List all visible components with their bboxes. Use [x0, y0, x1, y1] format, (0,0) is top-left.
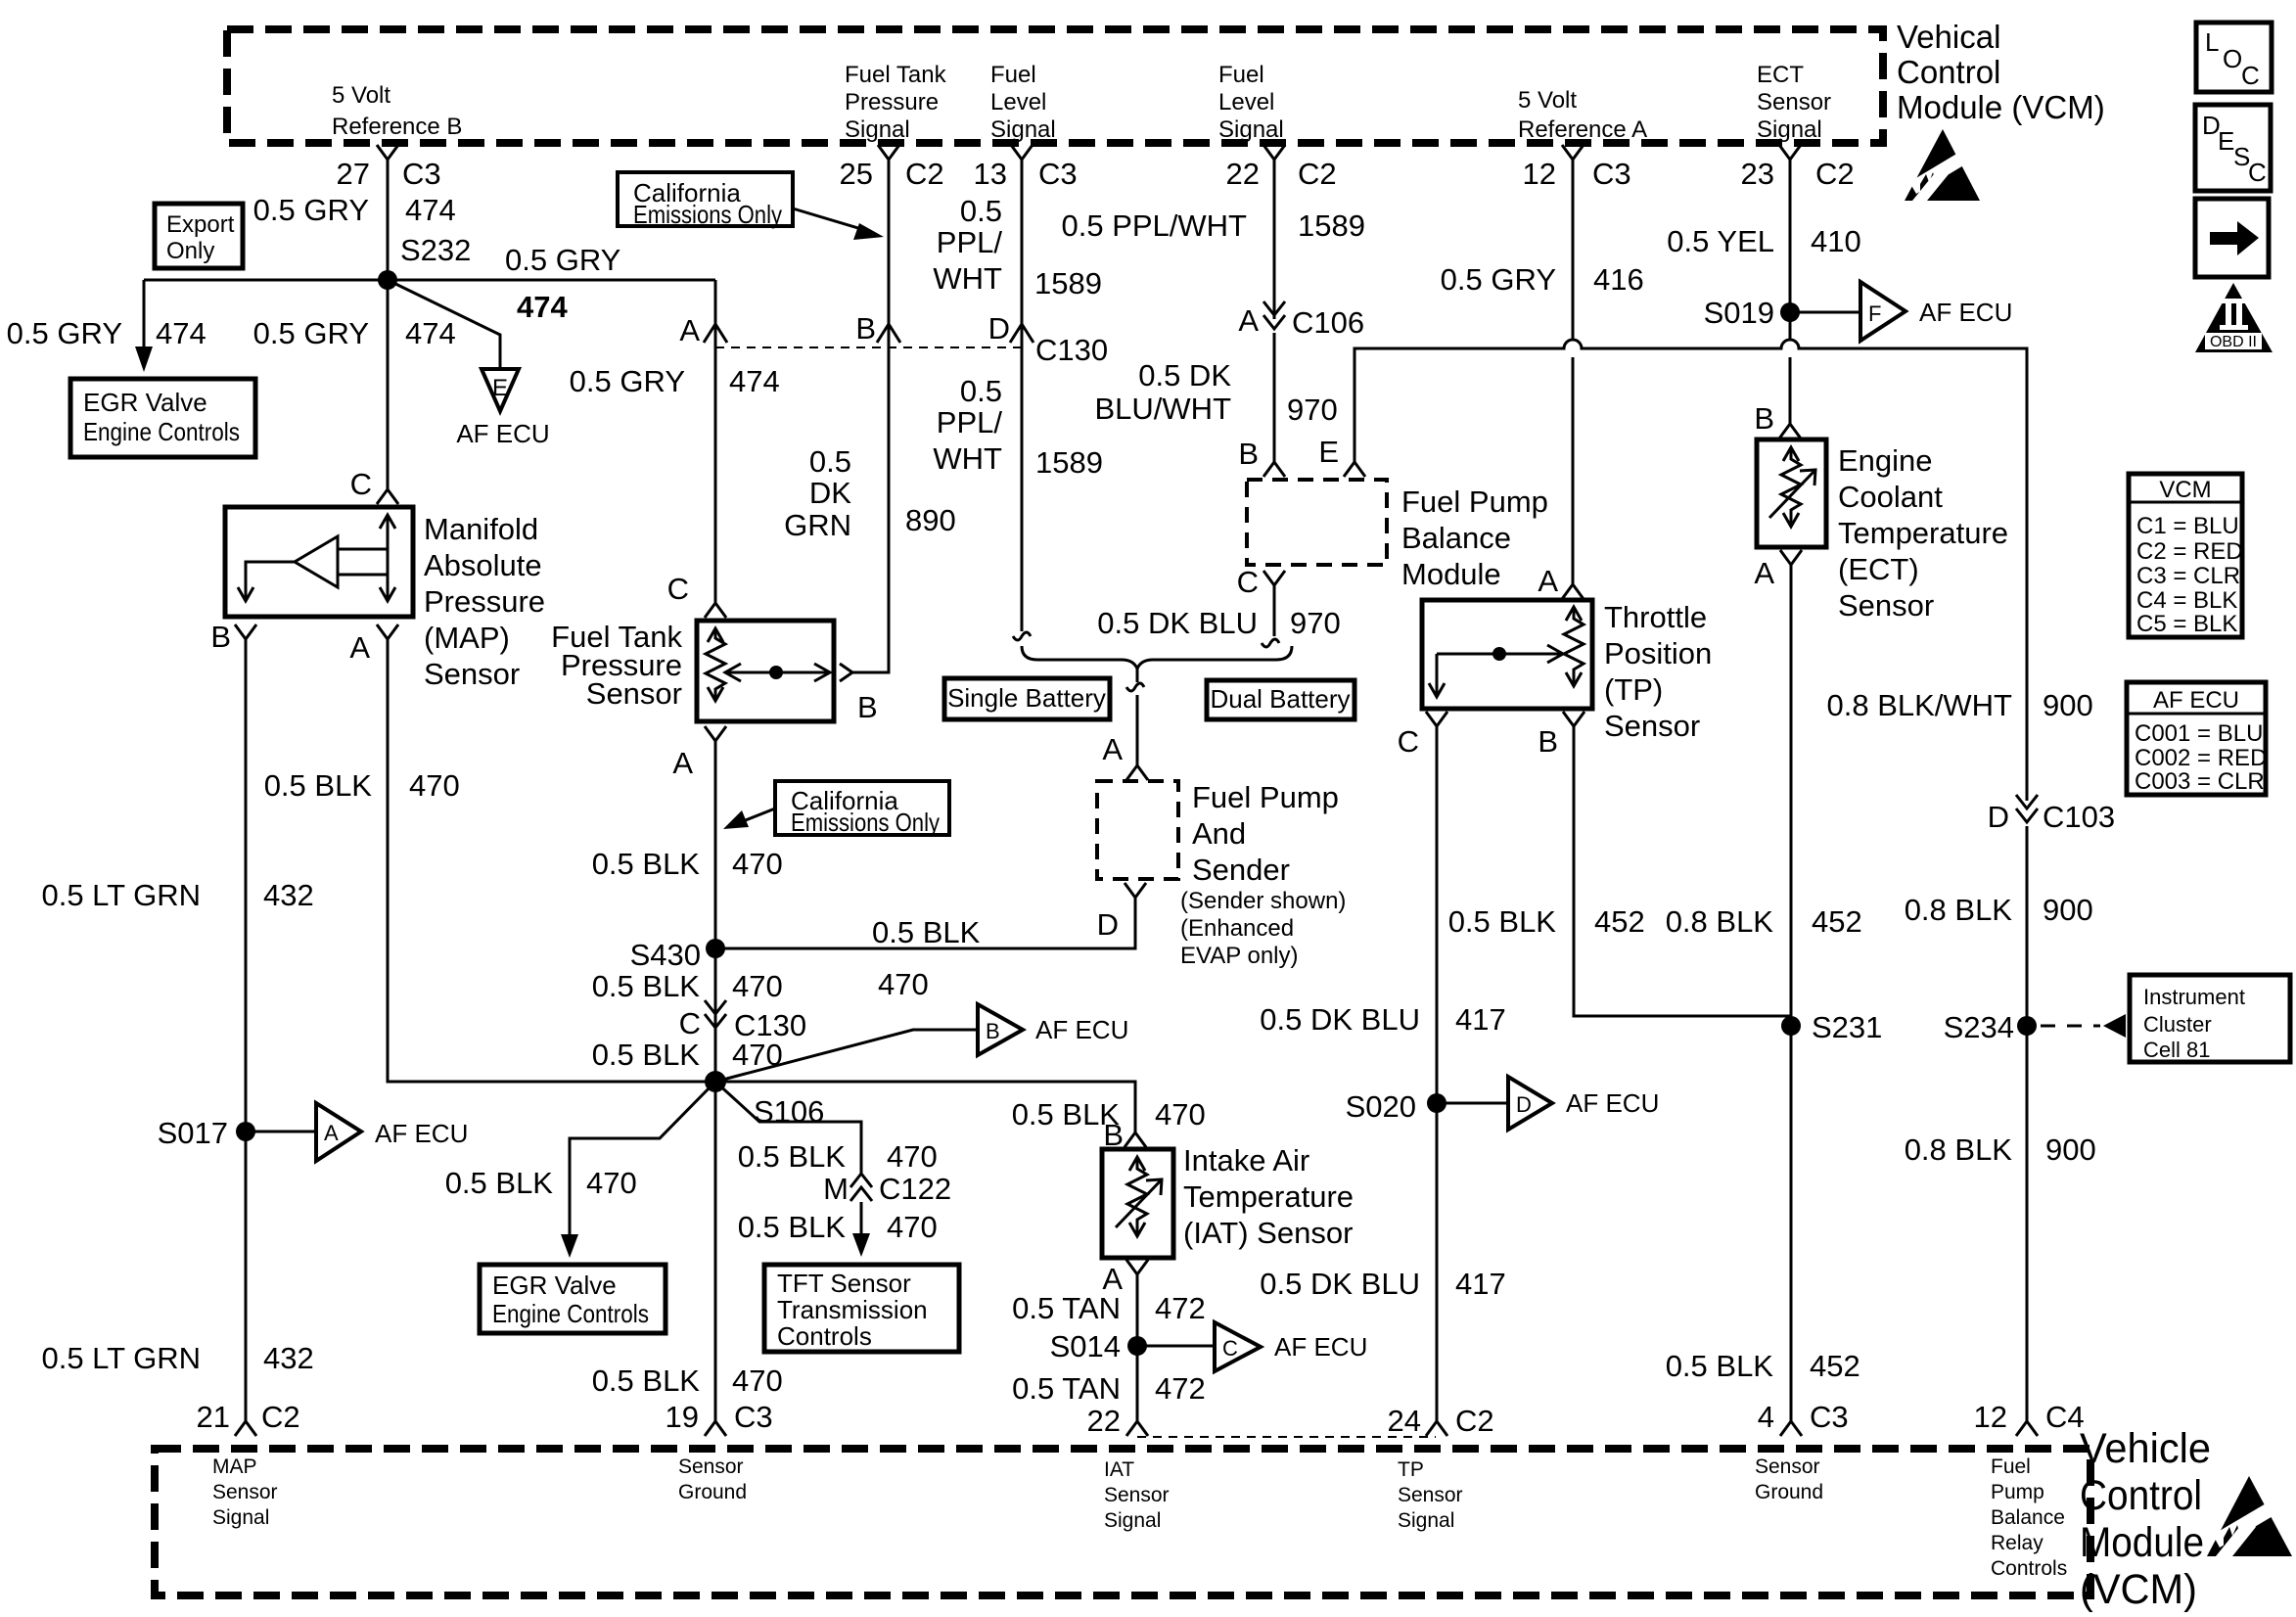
svg-text:452: 452	[1594, 904, 1645, 939]
svg-text:890: 890	[905, 503, 956, 537]
wire S014 to AF ECU C	[1137, 1345, 1214, 1348]
svg-text:0.5: 0.5	[960, 194, 1002, 228]
svg-text:0.5 BLK: 0.5 BLK	[738, 1210, 847, 1244]
Fuel Pump And Sender dashed box	[1097, 781, 1178, 879]
svg-text:0.5 GRY: 0.5 GRY	[505, 243, 620, 277]
label Fuel Pump Balance Module	[1401, 485, 1548, 591]
label 0.5 BLK 470 (below S430)	[592, 969, 783, 1003]
wire S106 to EGR Valve (lower)	[561, 1082, 715, 1258]
svg-text:0.8 BLK/WHT: 0.8 BLK/WHT	[1827, 688, 2013, 722]
svg-text:TFT Sensor: TFT Sensor	[777, 1269, 911, 1298]
svg-text:Absolute: Absolute	[424, 548, 542, 582]
svg-text:1589: 1589	[1034, 266, 1102, 300]
svg-text:VCM: VCM	[2159, 477, 2211, 503]
pin B FTP	[840, 664, 878, 724]
svg-text:A: A	[679, 313, 700, 347]
svg-text:F: F	[1868, 301, 1881, 326]
wire 452 TP B to S231	[1574, 726, 1791, 1016]
California Emissions Only box (lower)	[723, 781, 949, 837]
svg-text:Sensor: Sensor	[1838, 588, 1934, 623]
svg-text:Pump: Pump	[1991, 1481, 2044, 1503]
pin A ECT	[1754, 550, 1802, 590]
wire 474 down from S232 corner to FTP C	[714, 280, 717, 603]
svg-text:470: 470	[878, 967, 929, 1001]
label 0.5 DK BLU 417 (lower)	[1260, 1267, 1505, 1301]
AF ECU connector legend box	[2127, 682, 2267, 795]
svg-text:13: 13	[974, 157, 1007, 191]
svg-text:23: 23	[1741, 157, 1774, 191]
svg-text:0.5 DK BLU: 0.5 DK BLU	[1260, 1002, 1420, 1037]
label 0.5 GRY 416	[1441, 262, 1644, 297]
net label IAT Sensor Signal	[1104, 1458, 1170, 1532]
svg-text:Control: Control	[1897, 54, 2000, 90]
node S014	[1050, 1329, 1147, 1363]
svg-text:Cluster: Cluster	[2143, 1012, 2212, 1037]
pin 24 C2	[1388, 1404, 1494, 1438]
svg-text:Sensor: Sensor	[1757, 89, 1831, 115]
svg-text:C3 = CLR: C3 = CLR	[2136, 563, 2240, 589]
svg-text:5 Volt: 5 Volt	[1518, 87, 1577, 114]
svg-text:Reference B: Reference B	[332, 114, 462, 140]
svg-text:Manifold: Manifold	[424, 512, 538, 546]
label 0.5 DK BLU 970	[1097, 606, 1340, 640]
svg-text:0.5: 0.5	[960, 374, 1002, 408]
wire 474 pin 27 to S232	[387, 160, 390, 280]
svg-text:0.5 GRY: 0.5 GRY	[253, 316, 369, 350]
connector C130 pin D	[988, 311, 1109, 367]
pin A IAT	[1102, 1260, 1148, 1296]
svg-text:C3: C3	[1592, 157, 1631, 191]
svg-text:Only: Only	[166, 238, 214, 264]
svg-text:Emissions Only: Emissions Only	[633, 200, 782, 229]
svg-text:0.5 DK BLU: 0.5 DK BLU	[1097, 606, 1258, 640]
svg-text:PPL/: PPL/	[937, 405, 1003, 439]
VCM header text bottom right	[2080, 1425, 2211, 1613]
pin B IAT	[1103, 1118, 1146, 1152]
VCM top dashed box	[227, 29, 1883, 143]
pin A TP sensor	[1538, 564, 1584, 599]
wire 472 IAT A to pin 22	[1136, 1274, 1139, 1421]
svg-text:12: 12	[1523, 157, 1556, 191]
label 0.5 GRY (S232 to California wire)	[505, 243, 620, 324]
connector C106 pin A	[1238, 301, 1364, 340]
wire 470 FTP A to S430	[714, 741, 717, 1421]
svg-text:C: C	[350, 467, 372, 501]
pin 25 C2	[840, 145, 944, 191]
svg-text:417: 417	[1455, 1002, 1506, 1037]
wire 470 to IAT B	[715, 1082, 1135, 1132]
AF ECU grid D (triangle)	[1508, 1077, 1659, 1130]
svg-text:0.5 BLK: 0.5 BLK	[872, 915, 981, 949]
svg-text:(Sender shown): (Sender shown)	[1180, 888, 1346, 914]
svg-text:416: 416	[1593, 262, 1644, 297]
svg-text:0.5 LT GRN: 0.5 LT GRN	[41, 878, 201, 912]
svg-text:Pressure: Pressure	[845, 89, 939, 115]
label 0.5 DK BLU 417 (upper)	[1260, 1002, 1505, 1037]
LOC legend box	[2196, 23, 2272, 92]
svg-text:A: A	[1102, 732, 1123, 766]
svg-text:(VCM): (VCM)	[2080, 1566, 2197, 1613]
svg-text:OBD II: OBD II	[2210, 334, 2257, 350]
connector C130 pin A	[679, 313, 727, 347]
svg-text:Level: Level	[990, 89, 1046, 115]
svg-text:0.5 BLK: 0.5 BLK	[1448, 904, 1557, 939]
svg-text:DK: DK	[809, 476, 851, 510]
wire S020 to AF ECU D	[1437, 1102, 1507, 1105]
svg-text:C: C	[667, 572, 689, 606]
svg-text:S430: S430	[630, 938, 701, 972]
AF ECU grid A (triangle)	[316, 1103, 468, 1161]
svg-text:D: D	[988, 311, 1010, 346]
svg-text:C: C	[1398, 724, 1419, 759]
svg-text:A: A	[324, 1121, 339, 1145]
svg-text:474: 474	[405, 193, 456, 227]
wire 474 to EGR Valve (export only)	[135, 280, 153, 372]
net label MAP Sensor Signal	[212, 1455, 278, 1529]
wire 452 ECT A to pin 4	[1790, 565, 1793, 1421]
svg-text:Sensor: Sensor	[1104, 1484, 1170, 1506]
svg-text:Pressure: Pressure	[424, 584, 545, 619]
svg-text:470: 470	[409, 768, 460, 803]
op-amp U1 MAP sensor box	[225, 507, 413, 617]
svg-text:Coolant: Coolant	[1838, 480, 1943, 514]
svg-text:0.5 TAN: 0.5 TAN	[1012, 1371, 1121, 1406]
label 0.5 BLK 470 (C122 upper)	[738, 1139, 938, 1174]
svg-text:C2: C2	[905, 157, 944, 191]
svg-text:0.8 BLK: 0.8 BLK	[1905, 1132, 2013, 1167]
svg-text:0.5 BLK: 0.5 BLK	[592, 847, 701, 881]
svg-text:S014: S014	[1050, 1329, 1121, 1363]
svg-text:S017: S017	[158, 1116, 228, 1150]
svg-text:Instrument: Instrument	[2143, 985, 2245, 1009]
Single Battery box	[944, 678, 1110, 719]
Dual Battery box	[1207, 680, 1355, 719]
svg-text:C4 = BLK: C4 = BLK	[2136, 587, 2237, 614]
resistor FTP (Fuel Tank Pressure Sensor)	[697, 621, 834, 721]
svg-text:Engine Controls: Engine Controls	[492, 1299, 649, 1328]
resistor ECT (Engine Coolant Temperature Sensor)	[1757, 439, 1826, 547]
svg-text:S232: S232	[400, 233, 471, 267]
svg-text:A: A	[349, 630, 370, 665]
svg-text:C: C	[1237, 565, 1259, 599]
label 0.5 PPL/WHT 1589 (pin 13 lower)	[933, 374, 1103, 480]
svg-text:22: 22	[1087, 1404, 1121, 1438]
svg-text:C1 = BLU: C1 = BLU	[2136, 513, 2239, 539]
svg-text:(TP): (TP)	[1604, 672, 1663, 707]
svg-text:472: 472	[1155, 1291, 1206, 1325]
svg-text:432: 432	[263, 1341, 314, 1375]
pin A MAP	[349, 624, 398, 665]
wire 470 S430 to Fuel Pump D	[715, 898, 1135, 948]
node S231	[1781, 1010, 1882, 1044]
VCM connector legend box	[2129, 474, 2243, 637]
svg-text:AF ECU: AF ECU	[2153, 687, 2239, 714]
svg-text:C2 = RED: C2 = RED	[2136, 538, 2243, 565]
resistor IAT (Intake Air Temperature Sensor)	[1102, 1149, 1173, 1258]
svg-text:MAP: MAP	[212, 1455, 257, 1478]
svg-text:GRN: GRN	[784, 508, 851, 542]
AF ECU grid B (triangle)	[978, 1004, 1128, 1055]
wire S106 to AF ECU B	[715, 1030, 977, 1082]
net label Fuel Level Signal (pin 22)	[1218, 62, 1284, 143]
label 0.5 BLK 470 (EGR lower branch)	[445, 1166, 637, 1200]
label Throttle Position (TP) Sensor	[1604, 600, 1712, 743]
pin 4 C3	[1758, 1400, 1849, 1436]
svg-text:AF ECU: AF ECU	[1035, 1015, 1128, 1044]
svg-text:Dual Battery: Dual Battery	[1210, 684, 1350, 714]
svg-text:S231: S231	[1812, 1010, 1882, 1044]
svg-text:S106: S106	[754, 1094, 824, 1129]
label 0.8 BLK 452	[1666, 904, 1862, 939]
svg-text:S019: S019	[1704, 296, 1774, 330]
svg-text:C003 = CLR: C003 = CLR	[2135, 768, 2265, 795]
svg-text:C2: C2	[1298, 157, 1337, 191]
svg-text:L: L	[2205, 27, 2219, 57]
label Fuel Tank Pressure Sensor	[551, 620, 682, 711]
svg-text:Fuel: Fuel	[1991, 1455, 2031, 1478]
svg-text:Intake Air: Intake Air	[1183, 1143, 1309, 1178]
svg-text:432: 432	[263, 878, 314, 912]
connector link pins 22-24 dashed	[1137, 1436, 1436, 1438]
svg-text:0.5 DK BLU: 0.5 DK BLU	[1260, 1267, 1420, 1301]
svg-text:Throttle: Throttle	[1604, 600, 1707, 634]
svg-text:22: 22	[1226, 157, 1260, 191]
svg-text:Balance: Balance	[1991, 1506, 2065, 1529]
VCM bottom dashed box	[155, 1449, 2090, 1595]
wire 410 pin 23 to S019 to ECT B	[1789, 160, 1792, 424]
pin C Fuel Pump Balance Module	[1237, 565, 1285, 599]
svg-text:C: C	[2241, 61, 2260, 90]
svg-text:AF ECU: AF ECU	[456, 419, 549, 448]
pin 27 C3	[337, 145, 441, 191]
svg-text:C3: C3	[1038, 157, 1078, 191]
svg-text:WHT: WHT	[933, 261, 1002, 296]
net label ECT Sensor Signal	[1757, 62, 1831, 143]
svg-text:0.5: 0.5	[809, 444, 851, 479]
connector C103 pin D	[1988, 795, 2116, 834]
svg-text:Engine: Engine	[1838, 443, 1933, 478]
svg-text:Fuel Pump: Fuel Pump	[1192, 780, 1339, 814]
net label Fuel Tank Pressure Signal	[845, 62, 947, 143]
svg-text:BLU/WHT: BLU/WHT	[1095, 392, 1232, 426]
label 0.8 BLK 900 (lower)	[1905, 1132, 2096, 1167]
svg-text:21: 21	[197, 1400, 230, 1434]
pin B ECT sensor	[1754, 401, 1801, 439]
connector C130 pin B	[855, 311, 900, 346]
label 0.5 DK BLU/WHT 970	[1095, 358, 1338, 427]
ESD symbol bottom right	[2207, 1476, 2292, 1556]
svg-text:Signal: Signal	[212, 1506, 269, 1529]
ESD symbol top right	[1905, 129, 1980, 201]
label 0.5 YEL 410	[1667, 224, 1860, 258]
svg-text:452: 452	[1810, 1349, 1860, 1383]
pin 22 C2	[1226, 145, 1337, 191]
label Engine Coolant Temperature (ECT) Sensor	[1838, 443, 2008, 623]
wire S106 to TFT / C122	[715, 1082, 861, 1174]
pin 22	[1087, 1404, 1148, 1438]
svg-text:C5 = BLK: C5 = BLK	[2136, 611, 2237, 637]
svg-text:S234: S234	[1944, 1010, 2014, 1044]
svg-text:A: A	[672, 746, 693, 780]
svg-text:25: 25	[840, 157, 873, 191]
svg-text:Export: Export	[166, 211, 235, 238]
pin E Fuel Pump Balance Module	[1318, 435, 1365, 477]
net label Fuel Level Signal (pin 13)	[990, 62, 1056, 143]
svg-text:900: 900	[2043, 893, 2093, 927]
svg-text:Position: Position	[1604, 636, 1712, 670]
svg-text:Module: Module	[2080, 1519, 2204, 1566]
label 0.5 PPL/WHT 1589 (pin 13 upper)	[933, 194, 1102, 300]
pin 23 C2	[1741, 145, 1855, 191]
svg-text:472: 472	[1155, 1371, 1206, 1406]
svg-text:470: 470	[732, 1363, 783, 1398]
label 0.5 LT GRN 432 (upper)	[41, 878, 313, 912]
svg-text:970: 970	[1290, 606, 1341, 640]
wire 890 pin 25 to FTP B	[852, 160, 889, 672]
wire brace (battery option join)	[1022, 646, 1292, 765]
label 0.5 GRY 474 (below C130)	[570, 364, 780, 398]
pin C MAP	[350, 467, 398, 504]
node S430	[630, 938, 725, 972]
svg-text:452: 452	[1812, 904, 1862, 939]
svg-text:970: 970	[1287, 393, 1338, 427]
pin 12 C3	[1523, 145, 1631, 191]
svg-text:0.5 GRY: 0.5 GRY	[1441, 262, 1556, 297]
svg-text:C4: C4	[2045, 1400, 2085, 1434]
svg-text:WHT: WHT	[933, 441, 1002, 476]
svg-text:PPL/: PPL/	[937, 225, 1003, 259]
label 0.8 BLK 900 (middle)	[1905, 893, 2093, 927]
svg-text:Signal: Signal	[1104, 1509, 1161, 1532]
svg-text:C122: C122	[879, 1172, 951, 1206]
label 0.5 TAN 472 (lower)	[1012, 1371, 1206, 1406]
wire 432 MAP B to pin 21	[245, 639, 248, 1421]
svg-text:C: C	[1222, 1336, 1238, 1361]
svg-text:Temperature: Temperature	[1838, 516, 2008, 550]
svg-text:(IAT) Sensor: (IAT) Sensor	[1183, 1216, 1353, 1250]
wire 474 horizontal S232 bus	[144, 279, 715, 282]
svg-text:Signal: Signal	[990, 116, 1056, 143]
svg-text:EGR Valve: EGR Valve	[492, 1270, 617, 1300]
arrow legend box	[2195, 199, 2269, 277]
svg-text:474: 474	[517, 290, 568, 324]
AF ECU grid F (triangle)	[1860, 282, 2012, 341]
svg-text:Fuel Pump: Fuel Pump	[1401, 485, 1548, 519]
svg-text:TP: TP	[1398, 1458, 1424, 1481]
pin 21 C2	[197, 1400, 300, 1436]
svg-text:A: A	[1538, 564, 1558, 598]
svg-text:B: B	[986, 1019, 1000, 1043]
svg-text:470: 470	[887, 1139, 938, 1174]
svg-text:M: M	[823, 1172, 849, 1206]
label 0.5 GRY 474 (S232 down segment)	[253, 316, 456, 350]
svg-text:Balance: Balance	[1401, 521, 1511, 555]
label 0.5 GRY 474 (EGR branch)	[7, 316, 207, 350]
svg-text:Sensor: Sensor	[586, 676, 682, 711]
svg-text:Engine Controls: Engine Controls	[83, 417, 240, 446]
svg-text:Fuel: Fuel	[1218, 62, 1264, 88]
svg-text:0.5 BLK: 0.5 BLK	[1666, 1349, 1774, 1383]
svg-text:900: 900	[2045, 1132, 2096, 1167]
svg-text:C001 = BLU: C001 = BLU	[2135, 720, 2263, 747]
svg-text:Sensor: Sensor	[424, 657, 520, 691]
svg-text:0.5 BLK: 0.5 BLK	[738, 1139, 847, 1174]
svg-text:Cell 81: Cell 81	[2143, 1038, 2210, 1062]
pin B Fuel Pump Balance Module	[1238, 437, 1285, 477]
svg-text:0.5 LT GRN: 0.5 LT GRN	[41, 1341, 201, 1375]
svg-text:(ECT): (ECT)	[1838, 552, 1919, 586]
wire S019 to AF ECU F	[1790, 311, 1860, 314]
svg-text:Signal: Signal	[1757, 116, 1822, 143]
wire to TFT arrow	[852, 1202, 870, 1257]
svg-text:C103: C103	[2043, 800, 2115, 834]
svg-text:B: B	[855, 311, 876, 346]
wire S017 to AF ECU A	[246, 1131, 315, 1133]
svg-text:Sensor: Sensor	[678, 1455, 744, 1478]
svg-text:Module: Module	[1401, 557, 1501, 591]
OBD II symbol	[2195, 283, 2273, 352]
pin 13 C3	[974, 145, 1078, 191]
wire 970 FPB C to brace	[1262, 585, 1279, 647]
VCM header text top right	[1897, 19, 2105, 125]
svg-text:470: 470	[732, 847, 783, 881]
svg-text:B: B	[1538, 724, 1558, 759]
node S020	[1346, 1089, 1446, 1124]
label 0.5 LT GRN 432 (lower)	[41, 1341, 313, 1375]
Fuel Pump Balance Module dashed box	[1247, 480, 1387, 565]
svg-text:C002 = RED: C002 = RED	[2135, 745, 2267, 771]
svg-text:410: 410	[1811, 224, 1861, 258]
label 0.5 BLK 470 (C122 lower)	[738, 1210, 938, 1244]
svg-text:Sender: Sender	[1192, 853, 1290, 887]
wire 1589 pin 13 down to brace	[1013, 160, 1031, 640]
label 0.5 BLK (S430-D wire)	[872, 915, 981, 1001]
svg-text:EGR Valve: EGR Valve	[83, 388, 207, 417]
svg-text:Level: Level	[1218, 89, 1274, 115]
pin C TP	[1398, 712, 1447, 759]
dashed wire S234 to Instrument Cluster	[2041, 1014, 2126, 1038]
svg-text:C: C	[2248, 158, 2267, 187]
svg-text:0.5 BLK: 0.5 BLK	[592, 1038, 701, 1072]
svg-text:24: 24	[1388, 1404, 1421, 1438]
svg-text:E: E	[492, 375, 508, 401]
svg-text:C3: C3	[1810, 1400, 1849, 1434]
node S234	[1944, 1010, 2037, 1044]
svg-text:C2: C2	[1815, 157, 1855, 191]
svg-text:470: 470	[732, 969, 783, 1003]
wire 470 MAP A down to S106 bus	[388, 639, 715, 1082]
svg-text:Vehical: Vehical	[1897, 19, 2000, 55]
wire 5V ref A bus (FPB E to right wire)	[1355, 340, 2027, 801]
AF ECU grid E (triangle)	[456, 369, 549, 448]
svg-text:0.5 DK: 0.5 DK	[1138, 358, 1231, 393]
pin B MAP	[210, 620, 256, 654]
svg-text:0.5 PPL/WHT: 0.5 PPL/WHT	[1062, 208, 1248, 243]
label 0.5 BLK 470 (IAT B segment)	[1012, 1097, 1206, 1132]
svg-text:Reference A: Reference A	[1518, 116, 1647, 143]
svg-text:B: B	[1754, 401, 1774, 436]
svg-text:Fuel Tank: Fuel Tank	[845, 62, 947, 88]
pin A FTP	[672, 726, 726, 780]
svg-text:B: B	[1238, 437, 1259, 471]
TFT Sensor Transmission Controls box	[764, 1265, 959, 1352]
svg-text:0.5 BLK: 0.5 BLK	[592, 969, 701, 1003]
Instrument Cluster Cell 81 box	[2130, 975, 2290, 1062]
svg-text:Controls: Controls	[777, 1321, 872, 1351]
svg-text:470: 470	[1155, 1097, 1206, 1132]
svg-text:E: E	[2218, 126, 2234, 156]
svg-text:12: 12	[1974, 1400, 2007, 1434]
